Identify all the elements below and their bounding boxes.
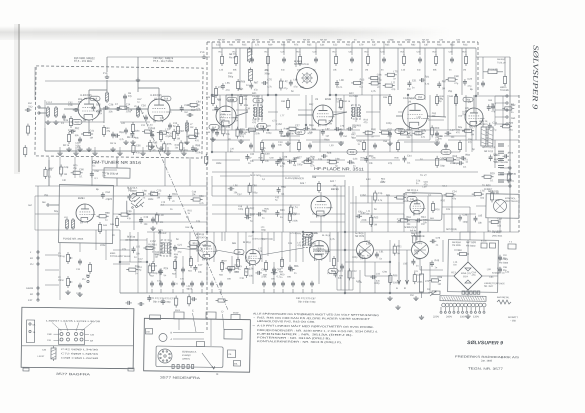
svg-text:1ØØp: 1ØØp [388,38,395,41]
extra loudspeaker module NR3413B [486,194,519,218]
svg-text:100p: 100p [386,122,392,125]
capacitor C50 [286,132,290,134]
svg-text:1: 1 [507,145,509,148]
svg-text:C98: C98 [382,271,387,274]
capacitor R24 [159,270,163,272]
svg-text:B2 + 30 = 16: B2 + 30 = 16 [492,272,505,275]
svg-text:C37: C37 [416,51,421,54]
capacitor C34 [382,58,386,60]
wire [39,107,46,109]
svg-text:L30: L30 [62,179,67,182]
wire [48,157,51,186]
pentode V6 EBF89 [311,196,331,216]
wire [319,130,322,152]
svg-text:R24: R24 [462,50,467,53]
wire [467,214,469,232]
svg-text:Bl 3516: Bl 3516 [243,241,252,244]
wire anode rail [89,89,107,91]
svg-text:800Ω: 800Ω [110,252,116,255]
svg-text:R46: R46 [281,43,286,46]
svg-text:47p: 47p [220,121,225,124]
wire [312,213,345,216]
resistor R3 [102,127,105,134]
svg-text:L39: L39 [422,185,427,188]
wire [442,206,470,209]
svg-text:C37: C37 [295,124,300,127]
svg-text:1M: 1M [329,122,332,125]
wire [113,249,130,251]
svg-text:NR.3Ø: NR.3Ø [218,39,225,42]
wire tuner ground bus [45,149,196,153]
capacitor C80 [257,271,259,275]
resistor L54 [174,298,177,305]
svg-text:47p: 47p [174,256,179,259]
svg-text:R65: R65 [357,124,362,127]
label leader lines [52,322,62,331]
svg-text:**: ** [252,324,255,328]
wire antenna top [46,103,56,105]
resistor L99 [329,161,336,164]
wire [451,196,454,232]
svg-text:NR.3Ø: NR.3Ø [320,38,327,41]
capacitor L85 [473,217,477,219]
svg-text:1n: 1n [264,210,267,213]
svg-text:L17: L17 [421,129,426,132]
capacitor C76 [181,268,185,270]
wire [451,42,453,48]
svg-text:R3Ø: R3Ø [337,39,342,42]
svg-text:C85: C85 [96,103,101,106]
svg-text:R47: R47 [351,133,356,136]
capacitor C58 [388,132,392,134]
svg-text:L21: L21 [258,247,263,250]
svg-text:100p: 100p [407,134,413,137]
svg-text:R75: R75 [167,143,172,146]
svg-text:50 WATT: 50 WATT [508,316,518,319]
svg-text:C16: C16 [378,192,383,195]
svg-text:C73: C73 [436,237,441,240]
resistor R56 [236,81,239,88]
svg-text:C14: C14 [442,185,447,188]
component box R1k [489,243,495,248]
capacitor C11 [144,116,148,118]
svg-text:C65: C65 [277,268,282,271]
svg-text:AM 3504: AM 3504 [499,258,509,261]
svg-text:L78: L78 [128,109,133,112]
capacitor R68 [277,188,281,190]
resistor C26 [245,268,248,275]
svg-text:2n: 2n [436,244,439,247]
svg-text:V3: V3 [315,98,319,101]
ground [287,141,289,143]
capacitor C37 [418,58,422,60]
wire [105,230,108,260]
svg-text:NR.3Ø: NR.3Ø [422,39,429,42]
capacitor R44 [417,218,419,222]
svg-text:68k: 68k [232,242,237,245]
capacitor C68 [151,218,155,220]
svg-text:2n: 2n [371,135,374,138]
wire V6 cathode down [206,259,209,284]
svg-text:R61: R61 [187,209,192,212]
wire [315,42,317,48]
wire [182,256,185,284]
resistor L89 [413,275,416,282]
svg-text:R94: R94 [369,155,374,158]
svg-text:L97: L97 [325,128,330,131]
rear terminal b0 [60,338,63,341]
svg-text:50µ: 50µ [54,210,59,213]
svg-text:R29: R29 [268,43,273,46]
resistor R36 [396,142,399,149]
svg-text:47p: 47p [349,69,353,72]
rear terminal a3 [80,332,83,335]
wire V1 anode up [88,90,90,98]
wire [260,175,300,176]
capacitor C44 [211,128,215,130]
output tube V10 EL84 [309,240,328,259]
svg-text:68k: 68k [386,194,391,197]
capacitor C25 [282,58,286,60]
svg-text:C82: C82 [358,210,363,213]
wire [411,130,414,152]
resistor C24 [446,193,453,196]
coil L10 [65,220,68,228]
svg-text:C19: C19 [144,216,149,219]
resistor R86 [432,279,439,282]
svg-text:4,7k: 4,7k [267,85,272,88]
wire [212,159,240,162]
wire [364,232,366,242]
resistor R18 [366,56,369,63]
svg-text:Bl 3552 Ø: Bl 3552 Ø [107,173,118,176]
voltage label 218 [227,97,237,102]
voltage label 170 [295,130,305,135]
resistor R61 [400,219,407,222]
svg-text:100p: 100p [297,163,303,166]
wire [124,100,126,109]
capacitor C80 [288,160,290,164]
svg-text:C70: C70 [76,268,81,271]
svg-text:1n: 1n [434,266,437,269]
resistor C87 [148,266,151,273]
svg-text:C88: C88 [252,184,257,187]
wire [212,129,280,131]
wire [345,230,476,233]
capacitor R29 [306,158,308,162]
svg-text:1M: 1M [325,252,328,255]
wire V9 cathode down [252,265,254,284]
wire [502,96,505,126]
wire V1 anode to C7 [100,108,122,111]
svg-text:47p: 47p [491,110,496,113]
svg-text:R3Ø: R3Ø [269,39,274,42]
svg-text:R35: R35 [307,43,312,46]
svg-text:1M: 1M [325,135,328,138]
svg-text:5n: 5n [416,182,419,185]
svg-text:C24: C24 [353,158,358,161]
wire [367,130,369,203]
capacitor C47 [249,144,253,146]
triode-hexode V4 ECH81 [402,103,427,128]
wire [146,238,147,293]
svg-text:L39: L39 [487,268,492,271]
resistor C41 [84,132,91,135]
svg-text:L90: L90 [417,116,422,119]
svg-text:J: J [30,251,32,254]
tap terminal 9 [479,311,481,313]
wire [476,95,519,96]
svg-text:L3Ø/37 L34/35 L32/33: L3Ø/37 L34/35 L32/33 L36/38 [46,319,101,323]
wire [494,140,497,168]
resistor R52 [151,263,154,270]
wire [212,213,300,215]
capacitor C61 [444,144,448,146]
svg-text:L18: L18 [92,162,97,165]
svg-text:100p: 100p [266,132,272,135]
component block EBL [233,360,240,366]
svg-text:12p: 12p [210,138,215,141]
wire [415,159,460,160]
voltage label 215 [161,96,171,101]
svg-text:R94: R94 [172,193,177,196]
svg-text:47p: 47p [196,107,201,110]
svg-text:R62: R62 [250,207,255,210]
wire [268,94,278,96]
svg-text:C87: C87 [424,44,429,47]
wire [442,213,476,216]
svg-text:R37: R37 [308,132,313,135]
wire [257,95,260,122]
svg-text:47p: 47p [454,82,459,85]
wire [416,220,419,240]
svg-text:5n: 5n [511,111,514,114]
svg-text:L31/37: L31/37 [37,355,45,358]
resistor L96 [249,128,256,131]
svg-text:R53: R53 [450,44,455,47]
svg-text:C36: C36 [184,104,189,107]
svg-text:1n: 1n [465,161,468,164]
svg-text:0,1: 0,1 [94,177,98,180]
resistor C84 [190,103,197,106]
svg-text:C80: C80 [79,168,84,171]
wire V1b anode up [158,88,160,99]
capacitor C7 [116,107,118,111]
svg-text:R19: R19 [367,255,372,258]
svg-text:33k: 33k [136,252,141,255]
svg-text:1M: 1M [463,69,466,72]
wire [398,111,403,113]
svg-text:10k: 10k [446,208,451,211]
svg-text:LIKERETTERPLADE: LIKERETTERPLADE [484,282,505,285]
svg-text:470: 470 [364,121,369,124]
svg-text:KV4ØØ7: KV4ØØ7 [182,354,192,357]
svg-text:2n: 2n [511,180,514,183]
svg-text:R29: R29 [490,172,495,175]
resistor R5 [131,124,134,131]
coil/transformer Av3516 [356,241,373,258]
capacitor R57 [139,302,141,306]
svg-text:0,1: 0,1 [262,178,266,181]
wire [300,129,360,131]
svg-text:1M: 1M [410,294,414,297]
capacitor C1 [62,115,66,117]
resistor R56 [220,262,223,269]
svg-text:HF-PLADE NR. 3511: HF-PLADE NR. 3511 [314,166,365,172]
svg-text:B: B [404,287,406,290]
svg-text:100p: 100p [238,208,244,211]
svg-text:C88: C88 [283,156,288,159]
svg-text:10k: 10k [144,223,149,226]
svg-text:C36: C36 [109,103,114,106]
resistor L28 [490,193,493,200]
wire [360,221,420,223]
wire mains to chassis [345,292,430,294]
wire R3 top [103,109,105,123]
wire [467,240,470,262]
svg-text:10k: 10k [278,144,283,147]
svg-text:0,1: 0,1 [490,179,494,182]
svg-text:A-19 FRIT LINEÆR MÅLT MED RØRV: A-19 FRIT LINEÆR MÅLT MED RØRVOLTMETER O… [257,323,374,329]
capacitor R19 [411,260,415,262]
svg-text:1B: 1B [32,331,35,334]
svg-text:C69: C69 [184,142,189,145]
svg-text:L75: L75 [393,70,398,73]
svg-text:25p: 25p [44,194,49,197]
svg-text:220k: 220k [196,249,202,252]
output tube hatching [314,245,324,247]
svg-text:C13: C13 [173,122,178,125]
wire [44,128,47,151]
transformer taps [440,307,442,311]
terminal input [37,287,39,289]
svg-text:470: 470 [391,88,396,91]
svg-text:C31: C31 [173,282,178,285]
svg-text:C72: C72 [397,218,402,221]
wire [219,95,222,130]
svg-text:EBF89: EBF89 [331,188,339,191]
svg-text:R54: R54 [188,270,193,273]
svg-text:C8Ø CØØ L28/3Ø: C8Ø CØØ L28/3Ø [61,357,99,360]
svg-text:L80: L80 [340,79,345,82]
svg-text:C80: C80 [293,157,298,160]
capacitor R21 [420,78,422,82]
wire [407,95,410,130]
svg-text:1n: 1n [187,212,190,215]
resistor R11 [220,56,223,63]
svg-text:R86: R86 [438,276,443,279]
resistor R25b [214,88,217,95]
wire [160,204,207,205]
wire [221,232,223,241]
svg-text:220k: 220k [255,132,261,135]
svg-text:L96: L96 [293,79,298,82]
wire [153,232,156,262]
svg-text:B: B [170,331,172,334]
svg-text:10k: 10k [135,137,140,140]
resistor C70 [187,297,190,304]
capacitor C102 [301,282,305,284]
capacitor C95 [200,282,204,284]
svg-text:R30: R30 [281,100,286,103]
wire [365,275,390,278]
wire [212,109,216,111]
svg-text:C53: C53 [336,98,341,101]
wire [252,158,290,161]
resistor L41 [222,127,225,134]
loudspeaker symbol [493,199,506,212]
svg-text:100p: 100p [417,242,423,245]
capacitor C52 [339,132,343,134]
IF transformer MF3 [161,240,171,256]
svg-text:2n: 2n [112,234,115,237]
capacitor C4 [78,138,82,140]
svg-text:2,2k: 2,2k [401,69,406,72]
resistor R45 [317,183,320,190]
svg-text:R21: R21 [425,76,430,79]
svg-text:1n: 1n [393,77,396,80]
wire [212,184,345,187]
svg-text:2M lin: 2M lin [58,279,65,282]
svg-text:5n: 5n [449,69,452,72]
resistor R54 [189,258,192,265]
svg-text:C39: C39 [246,107,251,110]
svg-text:C80: C80 [155,251,160,254]
svg-text:L10: L10 [64,216,68,219]
tap terminal 1 [444,311,446,313]
wire [389,240,392,262]
svg-text:3577 BAGFRA: 3577 BAGFRA [56,372,91,376]
resistor L73 [474,192,481,195]
svg-text:NR.3Ø: NR.3Ø [252,38,259,41]
wire [129,232,132,262]
svg-text:L55: L55 [225,82,230,85]
wire [237,232,240,262]
svg-text:500p: 500p [228,75,234,78]
svg-text:47p: 47p [492,129,497,132]
svg-text:L99: L99 [234,117,239,120]
wire ferrite to detector [127,201,182,215]
coil L11 [71,220,74,228]
resistor C23 [151,192,158,195]
resistor R63 [430,128,433,135]
svg-text:C55: C55 [357,281,362,284]
svg-text:R97: R97 [217,98,222,101]
svg-text:47p: 47p [127,217,132,220]
ground [167,151,169,153]
svg-text:6,3: 6,3 [398,130,402,133]
svg-text:1M: 1M [138,260,141,263]
svg-text:5n: 5n [283,163,286,166]
svg-text:C44: C44 [206,131,211,134]
svg-text:5n: 5n [312,245,315,248]
wire [420,266,422,274]
svg-text:100p: 100p [495,199,501,202]
capacitor C101 [291,282,295,284]
svg-text:FYS: FYS [200,51,205,54]
driver tube V11 [410,200,424,214]
wire [483,232,485,240]
diode in bridge [465,268,471,271]
svg-text:C23: C23 [157,189,162,192]
svg-text:ANT BØS: ANT BØS [466,241,477,244]
svg-text:C52: C52 [333,43,338,46]
resistor R30 [236,129,239,136]
svg-text:L52: L52 [247,256,252,259]
wire [212,94,218,96]
svg-text:C41: C41 [90,130,95,133]
wire [226,94,252,97]
